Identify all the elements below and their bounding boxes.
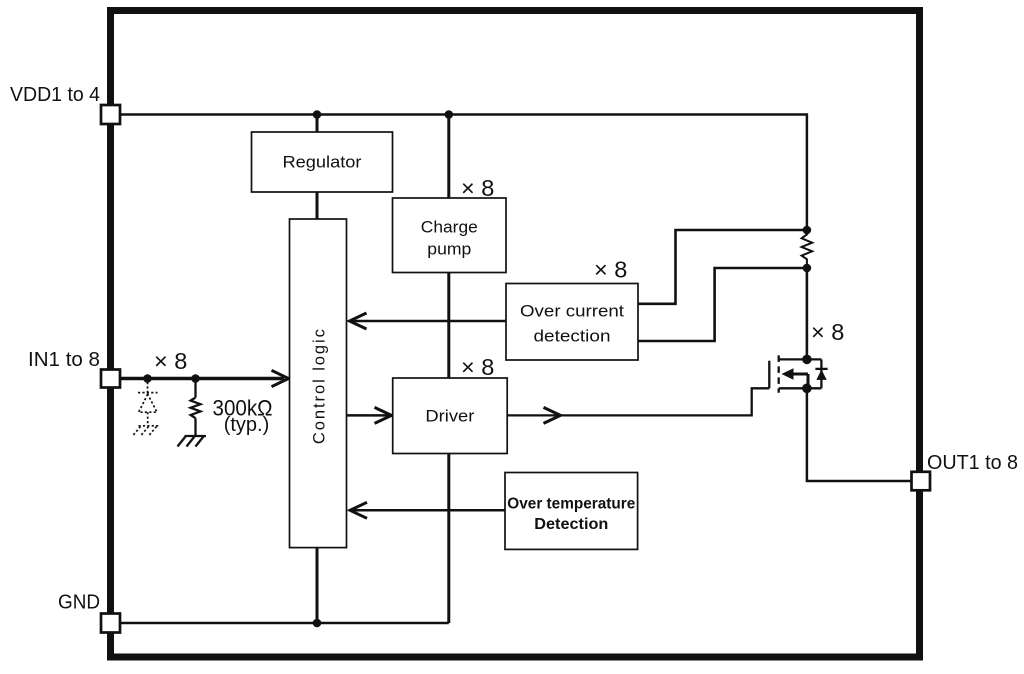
- svg-text:OUT1 to 8: OUT1 to 8: [927, 451, 1018, 474]
- svg-text:Control logic: Control logic: [310, 329, 328, 444]
- svg-text:Over current: Over current: [520, 303, 624, 321]
- svg-text:× 8: × 8: [154, 348, 187, 374]
- svg-text:× 8: × 8: [594, 257, 627, 283]
- svg-text:(typ.): (typ.): [224, 414, 270, 436]
- svg-text:× 8: × 8: [811, 319, 844, 345]
- svg-text:Regulator: Regulator: [283, 154, 363, 172]
- svg-text:pump: pump: [427, 241, 471, 259]
- svg-text:× 8: × 8: [461, 354, 494, 380]
- svg-text:Over temperature: Over temperature: [507, 496, 635, 513]
- svg-text:VDD1 to 4: VDD1 to 4: [10, 83, 100, 106]
- svg-text:IN1 to 8: IN1 to 8: [28, 348, 100, 371]
- svg-text:× 8: × 8: [461, 175, 494, 201]
- svg-text:Charge: Charge: [421, 219, 478, 237]
- svg-text:Detection: Detection: [534, 516, 608, 533]
- svg-text:GND: GND: [58, 591, 100, 614]
- svg-text:detection: detection: [534, 328, 611, 346]
- svg-text:Driver: Driver: [425, 408, 475, 426]
